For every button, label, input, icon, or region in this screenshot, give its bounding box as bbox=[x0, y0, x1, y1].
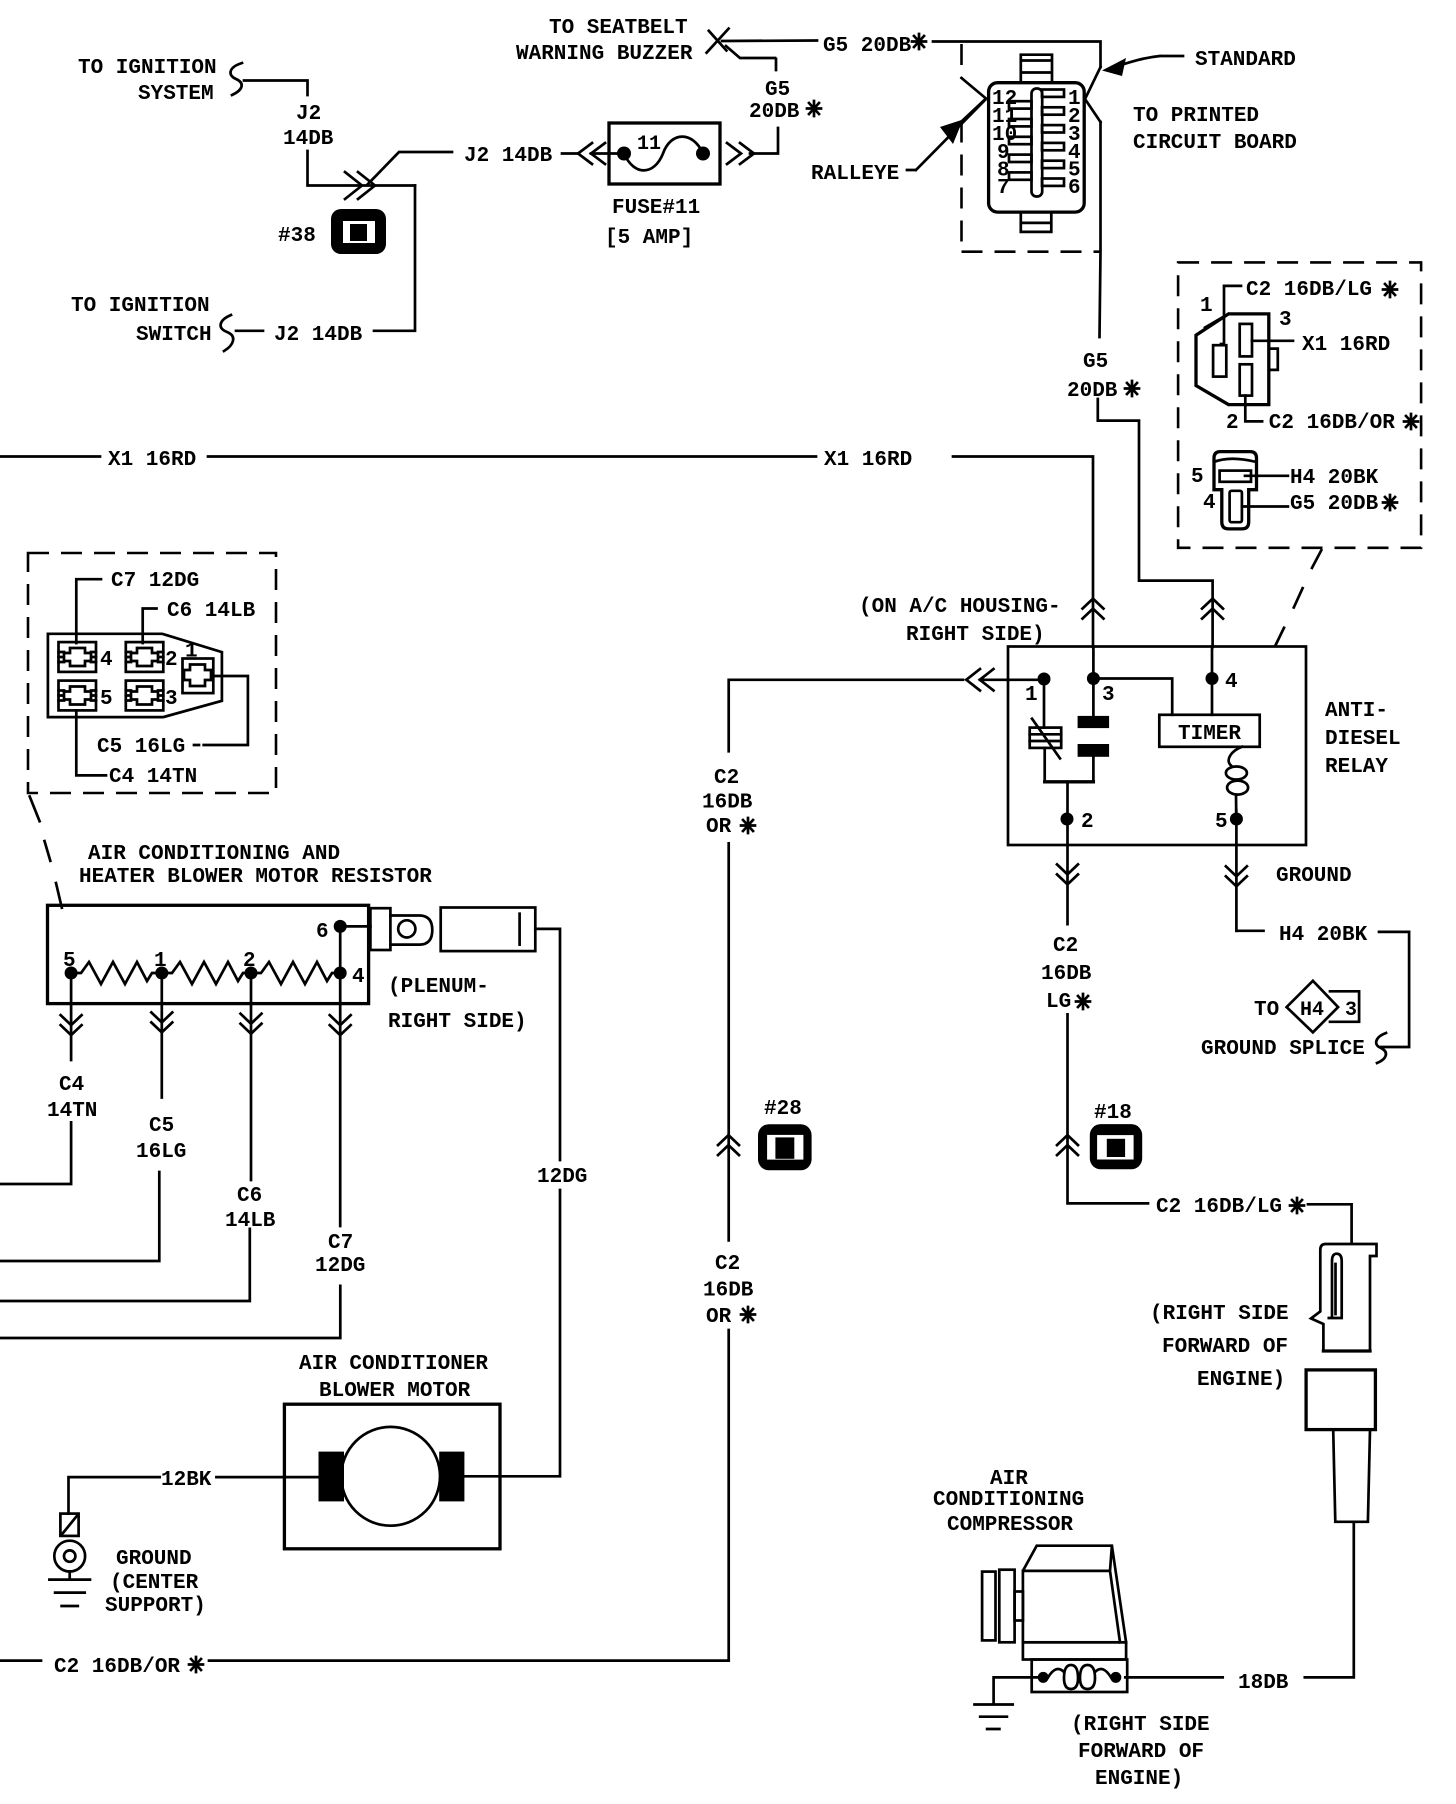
wire switch to 18DB run bbox=[1305, 1523, 1354, 1677]
wire label to plug bbox=[1308, 1204, 1352, 1243]
svg-text:C7 12DG: C7 12DG bbox=[111, 570, 199, 593]
asterisk (pin2 LG) bbox=[1076, 994, 1090, 1009]
relay pin dot 5 bbox=[1230, 813, 1243, 826]
svg-text:16DB: 16DB bbox=[1041, 963, 1092, 986]
svg-text:C2: C2 bbox=[715, 1253, 740, 1276]
relay internal bus bbox=[1045, 780, 1094, 783]
relay connector body bbox=[1196, 314, 1269, 405]
wire pin3 to timer bbox=[1100, 679, 1173, 715]
svg-text:(PLENUM-: (PLENUM- bbox=[388, 976, 489, 999]
label C4 14TN (wire) bbox=[47, 1074, 97, 1123]
label FUSE#11 (5 AMP) bbox=[605, 197, 700, 250]
svg-text:3: 3 bbox=[165, 688, 178, 711]
terminal 5 bbox=[59, 681, 97, 711]
leader C7 to terminal 4 bbox=[76, 579, 101, 643]
label G5 20DB (fuse side) bbox=[749, 79, 800, 124]
svg-text:(RIGHT SIDE: (RIGHT SIDE bbox=[1071, 1714, 1210, 1737]
motor armature circle bbox=[341, 1427, 440, 1526]
chevron (pin5 ground) bbox=[1226, 866, 1247, 886]
svg-text:GROUND SPLICE: GROUND SPLICE bbox=[1201, 1038, 1365, 1061]
label C7 12DG (wire) bbox=[315, 1232, 365, 1278]
relay connector right bump bbox=[1269, 349, 1278, 370]
label J2 14DB (vertical wire) bbox=[283, 103, 334, 151]
resistor connector body bbox=[48, 634, 222, 717]
asterisk (G5 20DB fuse side) bbox=[807, 101, 821, 116]
svg-text:16DB: 16DB bbox=[702, 792, 753, 815]
svg-text:HEATER BLOWER MOTOR RESISTOR: HEATER BLOWER MOTOR RESISTOR bbox=[79, 866, 432, 889]
svg-text:SUPPORT): SUPPORT) bbox=[105, 1595, 206, 1618]
terminal 2 bbox=[126, 642, 164, 672]
svg-text:FORWARD OF: FORWARD OF bbox=[1162, 1336, 1288, 1359]
5/4 terminal outer bbox=[1214, 452, 1257, 529]
svg-text:C2 16DB/OR: C2 16DB/OR bbox=[1269, 412, 1395, 435]
wire element to bus bbox=[1043, 748, 1046, 782]
pin numbers left 12,11,10,9,8,7 bbox=[992, 88, 1017, 200]
splice #28 bbox=[758, 1124, 812, 1170]
PCB connector body bbox=[989, 83, 1085, 212]
plug bottom edge bbox=[1323, 1349, 1370, 1352]
svg-text:G5: G5 bbox=[765, 79, 790, 102]
asterisk (mid riser) bbox=[1125, 381, 1139, 396]
compressor body bbox=[1023, 1546, 1126, 1643]
asterisk (upper OR) bbox=[741, 818, 755, 833]
svg-text:X1 16RD: X1 16RD bbox=[108, 449, 196, 472]
svg-text:1: 1 bbox=[185, 641, 198, 664]
compressor pulley bbox=[982, 1570, 1023, 1643]
label C2 16DB OR (upper) bbox=[702, 767, 753, 839]
svg-text:2: 2 bbox=[1081, 811, 1094, 834]
svg-text:3: 3 bbox=[1345, 999, 1357, 1022]
svg-text:18DB: 18DB bbox=[1238, 1672, 1289, 1695]
svg-text:ENGINE): ENGINE) bbox=[1197, 1369, 1285, 1392]
label TO IGNITION SYSTEM bbox=[78, 57, 217, 106]
svg-text:J2 14DB: J2 14DB bbox=[464, 145, 553, 168]
wire dash before arrow bbox=[562, 152, 577, 155]
wire down to ignition switch row bbox=[374, 186, 415, 331]
svg-text:#38: #38 bbox=[278, 225, 316, 248]
wire C2 16DB/OR long run bbox=[209, 1659, 729, 1662]
continuation squiggle (ignition system) bbox=[230, 63, 242, 95]
wire bus to pin2 bbox=[1066, 782, 1069, 813]
ground symbol (center support) bbox=[49, 1572, 90, 1607]
svg-text:20DB: 20DB bbox=[1067, 380, 1118, 403]
svg-text:2: 2 bbox=[165, 649, 178, 672]
cavity 1 slot bbox=[1213, 345, 1226, 376]
svg-text:WARNING BUZZER: WARNING BUZZER bbox=[516, 43, 693, 66]
label (RIGHT SIDE FORWARD OF ENGINE) upper bbox=[1150, 1303, 1289, 1392]
leader arrow STANDARD bbox=[1102, 56, 1183, 76]
labels 5 and 4 bbox=[1191, 466, 1216, 515]
wire node6 to thermal limiter bbox=[347, 925, 371, 928]
relay pin dot 3 bbox=[1087, 672, 1100, 685]
asterisk (top run) bbox=[912, 34, 926, 49]
asterisk (connector G5) bbox=[1383, 495, 1397, 510]
svg-text:G5 20DB: G5 20DB bbox=[1290, 493, 1379, 516]
chevron C4 bbox=[61, 1015, 82, 1035]
svg-text:C4: C4 bbox=[59, 1074, 84, 1097]
svg-text:5: 5 bbox=[1215, 811, 1228, 834]
relay resistor element (with diagonal) bbox=[1030, 719, 1062, 759]
5/4 terminal cap line bbox=[1214, 459, 1257, 462]
wire pin4 to timer bbox=[1211, 647, 1214, 715]
svg-text:C2 16DB/OR: C2 16DB/OR bbox=[54, 1656, 180, 1679]
compressor mount band bbox=[1023, 1642, 1126, 1659]
wire X to G5 20DB label bbox=[722, 39, 817, 42]
svg-text:STANDARD: STANDARD bbox=[1195, 49, 1296, 72]
svg-text:C7: C7 bbox=[328, 1232, 353, 1255]
wire resistor out 4 (C7) bbox=[339, 979, 342, 1226]
svg-text:12DG: 12DG bbox=[315, 1255, 365, 1278]
svg-text:(CENTER: (CENTER bbox=[110, 1572, 199, 1595]
svg-text:ENGINE): ENGINE) bbox=[1095, 1768, 1183, 1791]
timer box bbox=[1159, 715, 1259, 747]
wire riser middle section bbox=[727, 843, 730, 1240]
leader pin1 bbox=[1221, 286, 1241, 344]
wire G5 label to relay pin 4 bbox=[1098, 399, 1213, 647]
wire pin2 label to corner bbox=[1068, 1014, 1149, 1203]
H4 splice diamond bbox=[1287, 981, 1339, 1033]
ground strap (hatched) bbox=[60, 1514, 78, 1536]
svg-text:C6 14LB: C6 14LB bbox=[167, 600, 256, 623]
wire relay pin5 down bbox=[1235, 825, 1238, 931]
fuse element curve bbox=[624, 137, 703, 171]
svg-text:AIR: AIR bbox=[990, 1468, 1028, 1491]
label AIR CONDITIONING COMPRESSOR bbox=[933, 1468, 1084, 1537]
connector bottom tab bbox=[1021, 212, 1052, 232]
svg-text:C2 16DB/LG: C2 16DB/LG bbox=[1246, 279, 1372, 302]
label (RIGHT SIDE FORWARD OF ENGINE) lower bbox=[1071, 1714, 1210, 1791]
continuation squiggle (ignition switch) bbox=[221, 315, 234, 351]
wire X1 16RD to relay pin 3 bbox=[953, 457, 1093, 648]
chevron (pin2 out) bbox=[1057, 864, 1078, 884]
svg-text:FORWARD OF: FORWARD OF bbox=[1078, 1741, 1204, 1764]
clutch coil windings bbox=[1048, 1665, 1111, 1689]
relay connector inner edge bbox=[1205, 314, 1229, 405]
wire ignition system to J2 bbox=[244, 81, 308, 96]
leader pin5 to H4 20BK bbox=[1245, 474, 1288, 477]
svg-text:J2: J2 bbox=[296, 103, 321, 126]
leader terminal5 to C4 14TN bbox=[76, 710, 106, 775]
wire node6 to node4 bbox=[339, 926, 342, 973]
svg-text:SYSTEM: SYSTEM bbox=[138, 83, 214, 106]
svg-text:20DB: 20DB bbox=[749, 101, 800, 124]
svg-text:6: 6 bbox=[1068, 177, 1081, 200]
svg-text:16DB: 16DB bbox=[703, 1280, 754, 1303]
chevron C6 bbox=[241, 1014, 262, 1034]
svg-text:BLOWER MOTOR: BLOWER MOTOR bbox=[319, 1380, 471, 1403]
svg-text:SWITCH: SWITCH bbox=[136, 324, 212, 347]
wire C7 exit left bbox=[0, 1286, 340, 1338]
svg-text:RELAY: RELAY bbox=[1325, 756, 1388, 779]
asterisk (pin1 label) bbox=[1383, 282, 1397, 297]
terminal 3 bbox=[126, 681, 164, 711]
svg-text:1: 1 bbox=[1025, 684, 1038, 707]
cavity 3 slot bbox=[1240, 324, 1252, 357]
svg-text:[5 AMP]: [5 AMP] bbox=[605, 227, 693, 250]
svg-text:7: 7 bbox=[997, 177, 1010, 200]
connector center rail bbox=[1032, 89, 1043, 197]
leader C6 to terminal 2 bbox=[143, 609, 157, 644]
svg-text:TO IGNITION: TO IGNITION bbox=[71, 295, 210, 318]
connector chevron on pin3 riser bbox=[1083, 599, 1104, 619]
label AIR CONDITIONING AND HEATER BLOWER MOTOR RESISTOR bbox=[79, 843, 432, 889]
wire coil to compressor ground bbox=[994, 1677, 1038, 1703]
wire C4 exit left bbox=[0, 1122, 71, 1184]
leader pin2 bbox=[1245, 396, 1262, 422]
connector chevron << at fuse bbox=[578, 143, 605, 164]
pressure switch stem bbox=[1333, 1430, 1370, 1522]
svg-text:TO SEATBELT: TO SEATBELT bbox=[549, 17, 688, 40]
dashed box (blower resistor connector) bbox=[28, 553, 276, 793]
svg-text:TO IGNITION: TO IGNITION bbox=[78, 57, 217, 80]
wire 12BK to ground bbox=[69, 1477, 160, 1514]
svg-text:1: 1 bbox=[154, 950, 167, 973]
relay pin number labels bbox=[1025, 671, 1238, 834]
svg-text:GROUND: GROUND bbox=[1276, 865, 1352, 888]
label ANTI-DIESEL RELAY bbox=[1325, 700, 1401, 779]
leader pin3 to X1 16RD bbox=[1252, 339, 1293, 342]
label G5 20DB (buzzer column) bbox=[0, 0, 1, 1]
svg-text:X1 16RD: X1 16RD bbox=[824, 449, 912, 472]
clutch coil box bbox=[1032, 1660, 1128, 1693]
svg-text:CONDITIONING: CONDITIONING bbox=[933, 1489, 1084, 1512]
svg-text:LG: LG bbox=[1046, 991, 1071, 1014]
asterisk (bottom OR) bbox=[189, 1657, 203, 1672]
leader terminal1 to C5 16LG bbox=[194, 676, 248, 745]
label GROUND (CENTER SUPPORT) bbox=[105, 1548, 206, 1618]
fuse terminal dot left bbox=[617, 147, 631, 161]
svg-text:ANTI-: ANTI- bbox=[1325, 700, 1388, 723]
ground symbol (compressor) bbox=[975, 1705, 1013, 1730]
chevron C7 bbox=[330, 1015, 351, 1035]
svg-text:GROUND: GROUND bbox=[116, 1548, 192, 1571]
plug inner slot bbox=[1329, 1254, 1342, 1318]
thermal limiter bracket bbox=[370, 908, 432, 950]
svg-text:CIRCUIT BOARD: CIRCUIT BOARD bbox=[1133, 132, 1297, 155]
svg-text:14TN: 14TN bbox=[47, 1100, 97, 1123]
svg-text:5: 5 bbox=[100, 688, 113, 711]
label C5 16LG (wire) bbox=[136, 1115, 186, 1164]
label G5 20DB (mid riser) bbox=[1067, 351, 1118, 403]
relay pin dot 1 bbox=[1038, 673, 1051, 686]
svg-text:TIMER: TIMER bbox=[1178, 723, 1241, 746]
splice #18 bbox=[1090, 1124, 1142, 1169]
asterisk (pin2 label) bbox=[1404, 414, 1418, 429]
svg-text:AIR CONDITIONER: AIR CONDITIONER bbox=[299, 1353, 488, 1376]
connector chevron << (pin1 wire) bbox=[966, 669, 993, 691]
svg-text:H4 20BK: H4 20BK bbox=[1279, 924, 1368, 947]
terminal 4 bbox=[59, 642, 97, 672]
funnel wire notches into connector bbox=[962, 67, 1101, 122]
relay contact plates bbox=[1078, 716, 1110, 757]
relay pin dot 4 bbox=[1206, 672, 1219, 685]
wire chevron to relay pin1 bbox=[980, 678, 1038, 681]
wire X1 16RD bus main segment bbox=[208, 455, 816, 458]
terminal number labels bbox=[100, 641, 198, 712]
svg-text:C4 14TN: C4 14TN bbox=[109, 766, 197, 789]
splice #38 bbox=[331, 209, 386, 254]
svg-text:COMPRESSOR: COMPRESSOR bbox=[947, 1514, 1073, 1537]
svg-text:RALLEYE: RALLEYE bbox=[811, 163, 899, 186]
resistor node dots bbox=[65, 920, 347, 980]
break X symbol (seatbelt) bbox=[707, 29, 729, 53]
svg-text:OR: OR bbox=[706, 816, 732, 839]
wire pin5 corner to H4 label bbox=[1236, 929, 1263, 932]
svg-text:4: 4 bbox=[100, 649, 113, 672]
label C6 14LB (wire) bbox=[225, 1185, 276, 1233]
leader dashes to relay bbox=[1275, 550, 1321, 646]
slot 4 (vertical) bbox=[1230, 491, 1242, 522]
svg-text:H4: H4 bbox=[1300, 999, 1324, 1022]
svg-text:2: 2 bbox=[1226, 412, 1239, 435]
svg-text:C2: C2 bbox=[714, 767, 739, 790]
chevron (pin2 lower) bbox=[1057, 1135, 1078, 1155]
wire C6 exit left bbox=[0, 1229, 250, 1301]
svg-text:J2 14DB: J2 14DB bbox=[274, 324, 363, 347]
connector top tab bbox=[1021, 55, 1052, 83]
wire coil to pin5 bbox=[1235, 810, 1238, 819]
chevron up (#28 riser) bbox=[718, 1135, 739, 1155]
fuse terminal dot right bbox=[696, 147, 710, 161]
wire riser top corner to relay pin1 bbox=[729, 680, 963, 752]
dashed harness box (PCB connector) bbox=[962, 44, 1101, 252]
connector chevron >> after fuse bbox=[727, 143, 754, 164]
slot 5 (horizontal) bbox=[1220, 471, 1251, 482]
wire into fuse bbox=[591, 152, 624, 155]
motor brush right bbox=[439, 1452, 464, 1502]
connector teeth right (rows 1-6) bbox=[1042, 90, 1064, 186]
wire 12DG down to motor bbox=[464, 1190, 560, 1476]
wire C2 OR riser (motor feed) bbox=[727, 1330, 730, 1661]
wire J2 down and right bbox=[308, 151, 416, 186]
svg-text:2: 2 bbox=[243, 950, 256, 973]
fuse #11 box bbox=[609, 123, 720, 184]
wire motor left to 12BK bbox=[216, 1476, 318, 1479]
wire C5 exit left bbox=[0, 1172, 159, 1261]
svg-text:C5: C5 bbox=[149, 1115, 174, 1138]
svg-text:16LG: 16LG bbox=[136, 1141, 186, 1164]
svg-text:X1 16RD: X1 16RD bbox=[1302, 334, 1390, 357]
label C2 16DB LG (pin2 wire) bbox=[1041, 935, 1092, 1014]
resistor box bbox=[48, 905, 369, 1003]
svg-text:TO: TO bbox=[1254, 999, 1279, 1022]
svg-text:G5 20DB: G5 20DB bbox=[823, 35, 912, 58]
wire fuse to G5 riser bbox=[750, 128, 778, 154]
wire 18DB to compressor bbox=[1125, 1676, 1222, 1679]
svg-text:5: 5 bbox=[63, 950, 76, 973]
dashed leader box to resistor bbox=[30, 797, 62, 908]
svg-text:(RIGHT SIDE: (RIGHT SIDE bbox=[1150, 1303, 1289, 1326]
svg-text:12DG: 12DG bbox=[537, 1166, 587, 1189]
svg-text:C2: C2 bbox=[1053, 935, 1078, 958]
svg-text:#18: #18 bbox=[1094, 1102, 1132, 1125]
svg-text:FUSE#11: FUSE#11 bbox=[612, 197, 700, 220]
wire plenum box to 12DG drop bbox=[535, 929, 560, 1160]
label AIR CONDITIONER BLOWER MOTOR bbox=[299, 1353, 488, 1403]
svg-text:4: 4 bbox=[352, 966, 365, 989]
resistor element zigzags bbox=[71, 962, 340, 984]
connector chevron on pin4 riser bbox=[1202, 599, 1223, 619]
svg-text:H4 20BK: H4 20BK bbox=[1290, 467, 1379, 490]
leader pin4 to G5 20DB bbox=[1242, 505, 1288, 508]
terminal 1 bbox=[183, 659, 214, 694]
clutch coil dots bbox=[1038, 1672, 1122, 1683]
svg-text:4: 4 bbox=[1203, 492, 1216, 515]
svg-text:12BK: 12BK bbox=[161, 1469, 212, 1492]
svg-text:14DB: 14DB bbox=[283, 128, 334, 151]
wire X1 16RD bus left segment bbox=[0, 455, 100, 458]
connector teeth left (rows 12-7) bbox=[1009, 101, 1032, 180]
blower motor box bbox=[284, 1404, 500, 1549]
svg-text:C6: C6 bbox=[237, 1185, 262, 1208]
svg-text:3: 3 bbox=[1102, 684, 1115, 707]
svg-text:RIGHT SIDE): RIGHT SIDE) bbox=[906, 624, 1045, 647]
anti-diesel relay box bbox=[1008, 647, 1306, 846]
svg-text:C5 16LG: C5 16LG bbox=[97, 736, 185, 759]
plenum component box bbox=[441, 908, 536, 952]
label TO PRINTED CIRCUIT BOARD bbox=[1133, 105, 1297, 155]
svg-text:3: 3 bbox=[1279, 309, 1292, 332]
cavity labels 1,2,3 bbox=[1200, 295, 1292, 435]
label TO IGNITION SWITCH bbox=[71, 295, 212, 347]
svg-text:DIESEL: DIESEL bbox=[1325, 728, 1401, 751]
chevron C5 bbox=[151, 1012, 172, 1032]
svg-text:4: 4 bbox=[1225, 671, 1238, 694]
continuation squiggle (ground splice) bbox=[1376, 1033, 1386, 1063]
wire stub to switch squiggle bbox=[236, 329, 263, 332]
pressure switch body bbox=[1306, 1370, 1375, 1430]
branch diagonal to fuse line bbox=[367, 152, 452, 185]
label (PLENUM- RIGHT SIDE) bbox=[388, 976, 527, 1034]
cavity 2 slot bbox=[1240, 364, 1252, 395]
svg-text:11: 11 bbox=[637, 133, 661, 156]
wire resistor out 1 (C5) bbox=[160, 979, 163, 1098]
pin numbers right 1-6 bbox=[1068, 88, 1081, 200]
resistor pin labels 5 1 2 6 4 bbox=[63, 921, 365, 989]
inline connector chevron >> bbox=[345, 172, 375, 199]
right dashed detail box (anti-diesel relay connector) bbox=[1178, 262, 1421, 547]
relay coil bbox=[1226, 747, 1248, 813]
label (ON A/C HOUSING- RIGHT SIDE) bbox=[859, 596, 1061, 647]
wire G5 down right side of box bbox=[1100, 122, 1101, 337]
motor brush left bbox=[319, 1452, 345, 1502]
svg-text:TO PRINTED: TO PRINTED bbox=[1133, 105, 1259, 128]
compressor plug connector bbox=[1311, 1244, 1377, 1351]
wire resistor out 2 (C6) bbox=[250, 979, 253, 1180]
wire pin1 to element bbox=[1043, 685, 1046, 728]
wire relay pin2 down bbox=[1066, 825, 1069, 924]
H4 splice pin box bbox=[1330, 991, 1359, 1022]
label C2 16DB OR (lower) bbox=[703, 1253, 754, 1329]
asterisk (lower OR) bbox=[741, 1307, 755, 1322]
label TO SEATBELT WARNING BUZZER bbox=[516, 17, 693, 66]
ground eyelet bbox=[54, 1541, 85, 1572]
leader arrow RALLEYE bbox=[907, 100, 985, 170]
wire G5 to connector area bbox=[933, 42, 1101, 68]
svg-text:6: 6 bbox=[316, 921, 329, 944]
svg-text:1: 1 bbox=[1200, 295, 1213, 318]
svg-text:C2 16DB/LG: C2 16DB/LG bbox=[1156, 1196, 1282, 1219]
relay pin dot 2 bbox=[1061, 813, 1074, 826]
asterisk (compressor feed) bbox=[1290, 1198, 1304, 1213]
svg-text:RIGHT SIDE): RIGHT SIDE) bbox=[388, 1011, 527, 1034]
svg-text:(ON A/C HOUSING-: (ON A/C HOUSING- bbox=[859, 596, 1061, 619]
wire H4 to ground splice drop bbox=[1379, 932, 1409, 1047]
wire resistor out 5 (C4) bbox=[70, 979, 73, 1060]
svg-text:#28: #28 bbox=[764, 1098, 802, 1121]
svg-text:G5: G5 bbox=[1083, 351, 1108, 374]
wire pin3 to contact bbox=[1092, 647, 1095, 716]
